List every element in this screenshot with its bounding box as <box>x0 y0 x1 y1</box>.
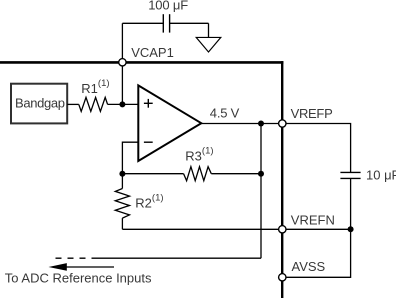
op-amp U1 <box>138 85 201 161</box>
wire: ground stem <box>208 23 210 37</box>
wire: sense line dashed segment <box>56 257 93 259</box>
wire: VREFP to capacitor C2 <box>282 124 350 173</box>
block: Bandgap <box>11 84 67 124</box>
svg-text:100 μF: 100 μF <box>148 0 188 13</box>
resistor R3 <box>184 167 212 181</box>
svg-text:VCAP1: VCAP1 <box>131 45 174 60</box>
wire: R2 top stem <box>121 174 123 189</box>
wire: op-amp - input feedback down to R3 row <box>122 142 138 174</box>
capacitor C2 10uF plates <box>340 172 360 178</box>
wire: R2 bottom stem <box>121 218 123 229</box>
wire: VCAP1 horizontal bus <box>0 61 283 64</box>
wire: VREFN junction down to AVSS row <box>282 229 350 277</box>
wire: - input junction to R3 <box>122 173 183 175</box>
resistor R2 <box>115 189 129 219</box>
svg-text:Bandgap: Bandgap <box>15 96 65 111</box>
ground <box>196 37 221 52</box>
arrow to ADC reference inputs <box>49 263 115 271</box>
svg-text:VREFN: VREFN <box>291 213 335 228</box>
capacitor C1 100uF plates <box>163 14 169 32</box>
node AVSS terminal circle <box>279 274 286 281</box>
wire: feedback/sense vertical from output down <box>260 124 262 259</box>
wire: VREFN row <box>122 228 350 230</box>
junction dot at - input / R2 / R3 <box>119 171 125 177</box>
wire: capacitor C1 right lead <box>170 22 209 24</box>
svg-text:4.5 V: 4.5 V <box>210 106 240 121</box>
wire: op-amp output to VREFP <box>201 123 282 125</box>
node VREFP terminal circle <box>279 120 286 127</box>
svg-text:VREFP: VREFP <box>291 106 333 121</box>
wire: R1 to op-amp + input <box>108 103 139 105</box>
wire: VCAP1 stem down to op-amp + junction <box>121 23 123 104</box>
node VCAP1 terminal circle <box>119 59 126 66</box>
wire: right vertical bus <box>281 61 283 298</box>
svg-text:10 μF: 10 μF <box>366 168 396 183</box>
resistor R1 <box>79 97 108 111</box>
junction dot at op-amp output feedback tap <box>258 121 264 127</box>
wire: capacitor C1 left lead <box>122 22 163 24</box>
junction dot at R3 right / feedback <box>258 171 264 177</box>
wire: Bandgap to R1 <box>67 103 79 105</box>
wire: R3 to feedback vertical <box>211 173 261 175</box>
junction dot at R1 / + input / VCAP1 stem <box>119 101 125 107</box>
svg-text:To ADC Reference Inputs: To ADC Reference Inputs <box>5 271 152 286</box>
node VREFN terminal circle <box>279 226 286 233</box>
wire: capacitor C2 bottom lead <box>350 178 352 229</box>
wire: sense line solid segment <box>92 257 261 259</box>
junction dot at C2 bottom / VREFN <box>348 226 354 232</box>
svg-text:AVSS: AVSS <box>292 259 326 274</box>
